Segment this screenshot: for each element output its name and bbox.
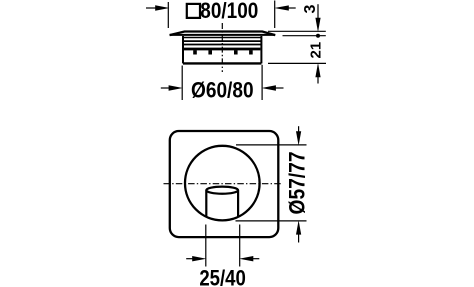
dimension 25/40 left extension line <box>205 225 207 267</box>
dimension Ø57/77 top extension line <box>236 144 307 146</box>
extension line left (flange tip) <box>167 2 169 28</box>
dimension 25/40 right extension line <box>239 225 241 267</box>
dimension Ø57/77 bottom arrow (up) <box>296 220 301 242</box>
dimension 25/40 right arrow <box>239 256 259 261</box>
lid left side wall <box>182 36 184 63</box>
extension line body bottom <box>268 62 326 64</box>
body bottom line <box>183 62 261 64</box>
clip tab 2 <box>208 50 212 54</box>
dimension dot at flange bottom <box>316 34 320 38</box>
dimension Ø60/80 right arrow <box>262 85 284 90</box>
dimension 25/40 left arrow <box>186 256 206 261</box>
dimension □80/100 right arrow <box>274 5 296 10</box>
extension line flange top <box>268 30 326 32</box>
flange underside line <box>170 34 276 36</box>
circle (grommet liner, top view) <box>185 146 260 221</box>
rounded square (top view outline) <box>170 131 278 237</box>
dimension Ø60/80 left arrow <box>161 85 183 90</box>
extension line flange bottom <box>283 35 326 37</box>
cylinder top ellipse (sliding insert) <box>206 187 238 194</box>
cylinder right side <box>237 191 239 217</box>
lid right side wall <box>260 36 262 63</box>
clip tab 4 <box>249 50 253 54</box>
svg-text:Ø57/77: Ø57/77 <box>284 152 309 215</box>
dimension Ø57/77 top arrow (down) <box>296 126 301 145</box>
svg-text:21: 21 <box>308 42 325 59</box>
svg-text:25/40: 25/40 <box>199 265 246 287</box>
clip tab 3 <box>234 50 238 54</box>
dimension Ø60/80 right extension line <box>261 65 263 100</box>
square symbol of label 80/100 <box>187 4 200 18</box>
centre line of side view <box>221 23 223 72</box>
flange (side view top plate) <box>170 32 276 36</box>
svg-text:3: 3 <box>302 5 319 14</box>
clip tab 1 <box>193 50 197 54</box>
lid top line <box>183 37 261 39</box>
svg-text:80/100: 80/100 <box>200 0 258 23</box>
dimension Ø60/80 left extension line <box>181 66 183 101</box>
dimension 3 leader line with down arrow <box>315 4 320 32</box>
lid inner line 2 <box>183 44 261 46</box>
clip bar <box>184 48 260 51</box>
horizontal centre line (top view) <box>164 183 283 185</box>
extension line right (flange tip) <box>274 1 276 29</box>
cylinder left side <box>205 191 207 218</box>
svg-text:Ø60/80: Ø60/80 <box>191 77 254 102</box>
lid inner line 1 <box>183 40 261 42</box>
dimension □80/100 left arrow <box>146 5 169 10</box>
dimension 21 up arrow <box>315 63 320 84</box>
dimension Ø57/77 bottom extension line <box>236 220 307 222</box>
